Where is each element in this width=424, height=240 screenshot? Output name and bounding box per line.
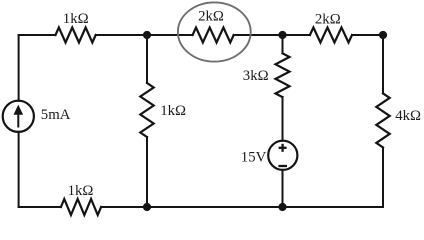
svg-text:4kΩ: 4kΩ: [395, 108, 421, 124]
svg-text:5mA: 5mA: [41, 107, 71, 123]
svg-text:15V: 15V: [241, 150, 267, 166]
svg-text:2kΩ: 2kΩ: [198, 9, 224, 25]
svg-text:3kΩ: 3kΩ: [243, 68, 269, 84]
svg-text:2kΩ: 2kΩ: [315, 12, 341, 28]
svg-text:1kΩ: 1kΩ: [160, 103, 186, 119]
svg-text:1kΩ: 1kΩ: [63, 11, 89, 27]
svg-text:1kΩ: 1kΩ: [68, 183, 94, 199]
